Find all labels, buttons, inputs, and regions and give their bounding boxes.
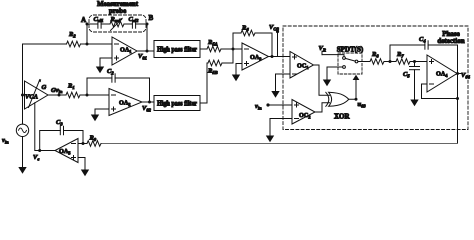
sine source v_in (16, 124, 28, 136)
svg-text:probe: probe (109, 7, 126, 15)
resistor R8 (370, 59, 384, 65)
node on left rail to VCA (21, 94, 24, 97)
wire source bottom (22, 137, 24, 168)
resistor R9 (87, 141, 101, 147)
ground at OA5 + (81, 170, 89, 177)
svg-text:High pass filter: High pass filter (157, 46, 197, 54)
comparator OC2 (292, 100, 315, 125)
svg-text:A: A (81, 16, 86, 24)
resistor R1 (66, 92, 80, 98)
node V01 (146, 50, 149, 53)
op-amp OA2 (109, 89, 142, 116)
node under A (86, 43, 89, 46)
op-amp OA3 (242, 43, 269, 70)
wire OA3 + to ground (236, 64, 242, 75)
wire node A up (86, 24, 88, 44)
wire VCA out (48, 94, 66, 96)
node at feedback join (271, 55, 274, 58)
wire OA4 output (457, 73, 462, 75)
svg-text:detection: detection (437, 37, 464, 45)
wire R1 to OA2 (80, 94, 109, 96)
svg-text:XOR: XOR (334, 113, 351, 121)
wire OA4 - feedback loop (422, 84, 458, 99)
capacitor Cel2 (132, 20, 135, 28)
svg-text:SPDT(S): SPDT(S) (337, 46, 364, 54)
node at OA2 inverting input (86, 94, 89, 97)
capacitor C5 to ground (414, 62, 416, 67)
wire R5A to sum node (221, 48, 242, 50)
svg-text:VCA: VCA (25, 94, 39, 101)
wire VR to switch (322, 55, 344, 57)
svg-text:G: G (42, 84, 47, 91)
wire R7 to OA4 (410, 61, 427, 63)
resistor R5B (208, 60, 222, 66)
wire Cel2 to B (136, 23, 147, 25)
VCA amplifier (25, 79, 49, 109)
comparator OC1 (290, 52, 314, 79)
node A (86, 23, 89, 26)
high pass filter 2 (154, 96, 200, 111)
ground at OA1 + (96, 67, 104, 74)
capacitor Cel1 (98, 20, 101, 28)
wire top rail from left (23, 43, 67, 45)
wire OA1 + to ground (100, 58, 112, 67)
wire output vertical down (457, 74, 459, 144)
node after R7 (413, 60, 416, 63)
wire OA3 out to OC1 (269, 56, 291, 58)
wire R5B up to sum node (222, 49, 233, 63)
resistor R2 top (67, 41, 81, 47)
capacitor C4 feedback rail (390, 45, 425, 62)
svg-text:B: B (149, 14, 154, 22)
wire Rsol to Cel2 (124, 23, 132, 25)
wire switch lower contact to ground (327, 67, 343, 80)
ground under switch input (323, 80, 331, 87)
op-amp OA4 (427, 55, 457, 92)
resistor R7 (396, 59, 410, 65)
svg-text:High pass filter: High pass filter (157, 100, 197, 108)
long feedback wire (101, 143, 458, 145)
ground at OA3 + (232, 75, 240, 82)
terminal VO3 (277, 32, 279, 57)
high pass filter 1 (154, 41, 200, 58)
sum node (232, 48, 235, 51)
wire switch out (358, 61, 370, 63)
wire to VCA input (23, 94, 25, 96)
wire OA2 + to ground (95, 109, 109, 115)
wire OA2 out (142, 101, 154, 103)
wire R2 to node A junction (81, 43, 113, 45)
ground at OC1 - (271, 91, 279, 98)
wire OC2 - to ground arrow (270, 119, 292, 136)
node after R8 (389, 60, 392, 63)
wire A to Cel1 (87, 23, 98, 25)
wire HPF2 out up to R5B (200, 63, 208, 103)
wire OC2 out to XOR (315, 103, 330, 112)
ground arrow at OC2 - (266, 136, 274, 143)
ground under source (18, 167, 26, 174)
op-amp OA1 (112, 37, 137, 65)
wire XOR out up to switch control (349, 80, 356, 99)
XOR gate (326, 92, 349, 106)
wire OA5 out Vc to VCA (35, 103, 55, 151)
node Gvin (58, 94, 61, 97)
node V02 (148, 101, 151, 104)
terminal vin to OC2 + (268, 104, 292, 106)
wire OA5 + to ground (78, 158, 85, 170)
wire HPF1 out (200, 48, 207, 50)
resistor Rsol (variable) (110, 21, 124, 27)
wire Cel1 to Rsol (101, 23, 110, 25)
resistor R6 feedback (233, 33, 241, 49)
wire OC1 - to ground (276, 74, 291, 91)
SPDT switch (338, 53, 362, 74)
capacitor C2 feedback (87, 78, 112, 95)
probe dashed box (89, 15, 146, 32)
resistor R5A (207, 46, 221, 52)
capacitor C3 feedback (64, 131, 84, 144)
wire B down to OA1 output (146, 24, 148, 51)
ground at OA2 + (91, 115, 99, 122)
op-amp OA5 (points left) (55, 139, 78, 163)
wire R8 to node (384, 61, 396, 63)
wire source top to rail (22, 44, 24, 124)
wire sum node to OA3 - (233, 48, 242, 50)
wire OC1 out to XOR (314, 65, 330, 95)
wire OA1 output (137, 50, 154, 52)
node B (146, 23, 149, 26)
wire R9 to OA5 - (78, 143, 87, 145)
phase detection dashed box (283, 26, 468, 130)
